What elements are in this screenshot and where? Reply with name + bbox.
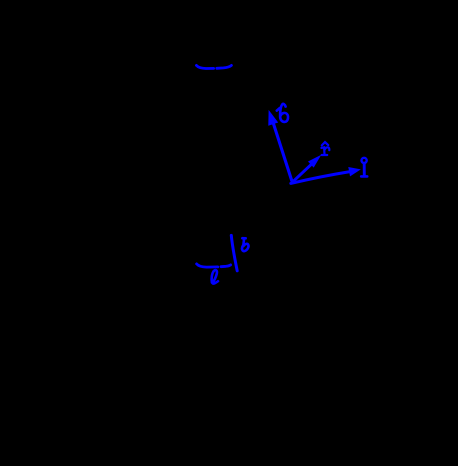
wire: dimension dash for l (horizontal) <box>197 264 231 267</box>
node label b-hat <box>277 104 288 122</box>
node label r-hat <box>321 142 329 155</box>
node label l (script ell) <box>212 270 218 284</box>
wire: dimension dash for b (vertical) <box>231 235 237 270</box>
arrow l-hat (right unit vector) <box>291 168 360 184</box>
node label b <box>242 238 248 251</box>
wire: short curved stroke at top <box>196 65 231 68</box>
arrow b-hat (up-left unit vector) <box>269 111 293 182</box>
arrow r-hat (diagonal unit vector) <box>292 156 320 182</box>
node label l-hat <box>361 158 367 177</box>
